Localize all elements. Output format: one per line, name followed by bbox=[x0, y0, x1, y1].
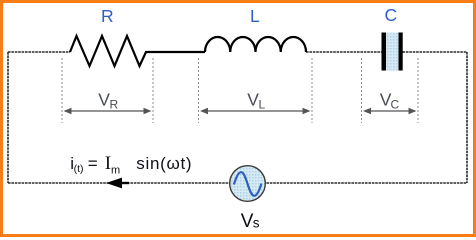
svg-text:R: R bbox=[110, 98, 119, 112]
svg-text:C: C bbox=[391, 98, 400, 112]
svg-text:R: R bbox=[101, 6, 114, 26]
svg-text:C: C bbox=[385, 5, 398, 25]
svg-text:sin(ωt): sin(ωt) bbox=[136, 154, 192, 173]
svg-text:=: = bbox=[88, 154, 98, 173]
svg-text:L: L bbox=[250, 6, 260, 26]
svg-text:L: L bbox=[259, 98, 266, 112]
svg-text:V: V bbox=[247, 90, 259, 110]
svg-text:(t): (t) bbox=[74, 163, 84, 175]
svg-text:m: m bbox=[111, 165, 120, 177]
svg-text:s: s bbox=[253, 216, 260, 231]
svg-text:V: V bbox=[98, 90, 110, 110]
